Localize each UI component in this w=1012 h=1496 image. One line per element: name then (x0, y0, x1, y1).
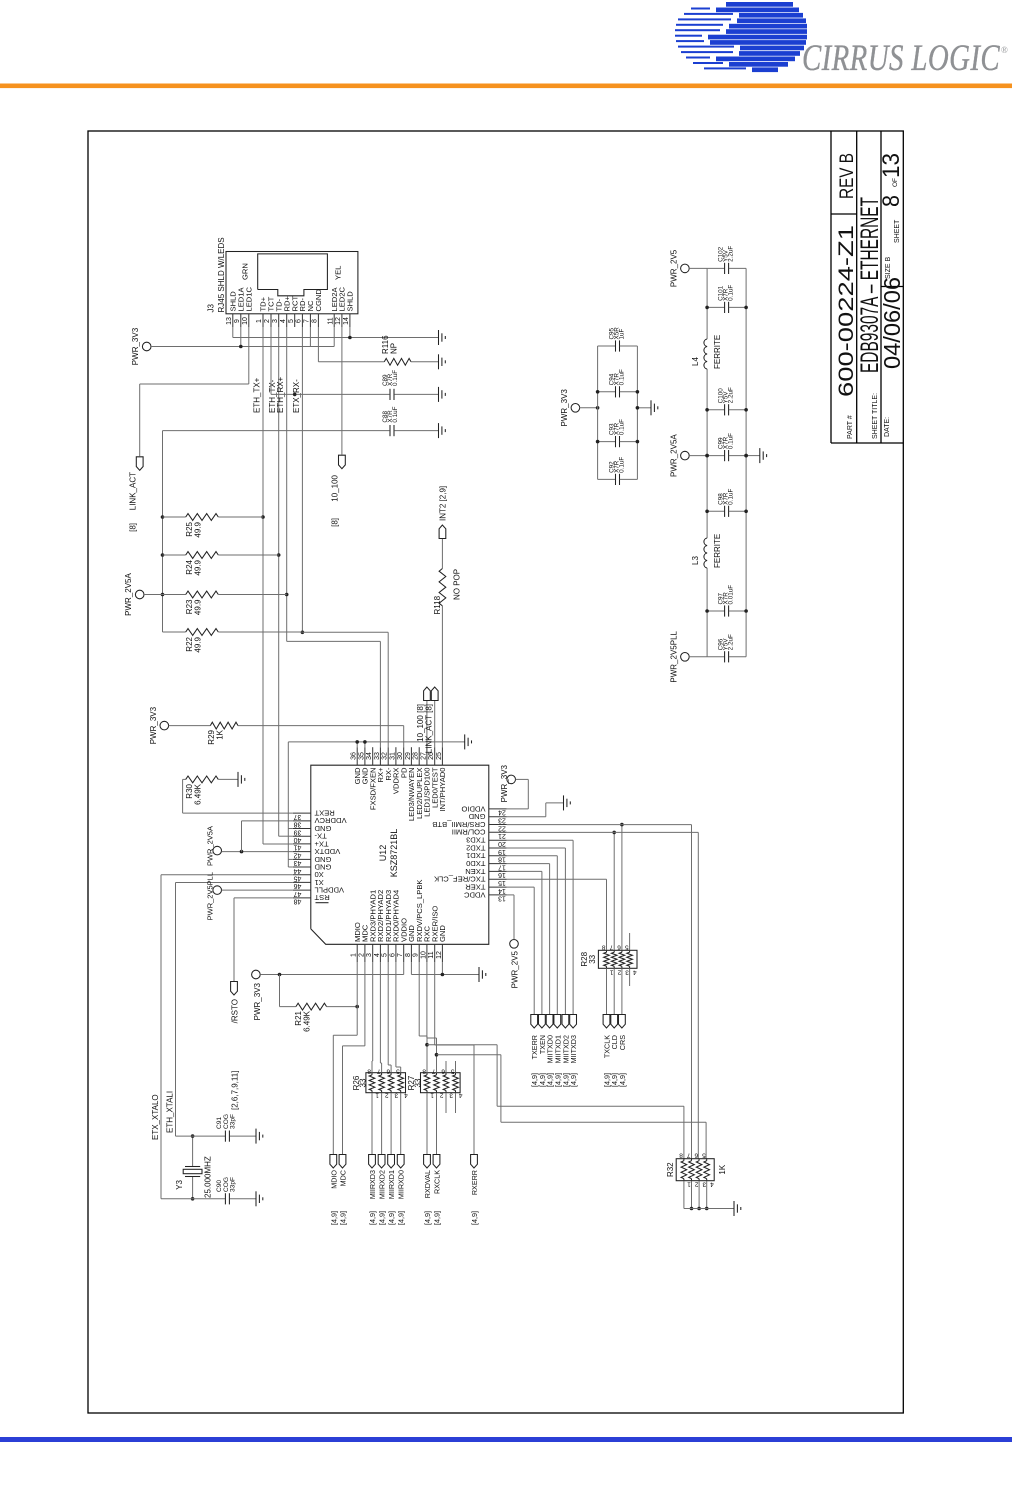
wire PWR_3V3 LED rail (151, 346, 334, 348)
svg-text:PWR_2V5PLL: PWR_2V5PLL (670, 630, 679, 682)
node 10_100 flag at J3 (339, 455, 346, 469)
svg-text:24: 24 (498, 809, 506, 816)
svg-text:46: 46 (294, 882, 302, 889)
J3 pin 9 LED1A (240, 314, 242, 327)
svg-text:X1: X1 (315, 878, 324, 887)
wire RXD3 net (372, 962, 374, 1061)
power symbol PWR_2V5PLL at filter (681, 653, 690, 662)
ground at J3 shield (438, 330, 440, 345)
svg-text:PWR_2V5A: PWR_2V5A (124, 572, 133, 615)
capacitor C96 2.2uF (707, 656, 724, 658)
wire GND rail pins 35 36 (288, 741, 464, 743)
svg-text:36: 36 (351, 752, 358, 760)
net MDIO (356, 962, 358, 1035)
U12 pin 37 REXT (293, 812, 311, 814)
J3 pin 3 TD- (278, 314, 280, 327)
inductor L3 FERRITE (704, 538, 707, 568)
U12 pin 24 VDDIO (489, 808, 507, 810)
R28 element 2 (611, 952, 617, 966)
net TXCLK via R28 (507, 878, 607, 880)
J3 pin 13 SHLD (232, 314, 234, 327)
svg-text:19: 19 (498, 848, 506, 855)
crystal Y3 25.000MHZ (192, 1177, 194, 1199)
svg-text:37: 37 (294, 813, 302, 820)
wire RX+ route to pin33 (287, 640, 381, 642)
svg-text:[4,9]: [4,9] (618, 1073, 627, 1087)
svg-text:6: 6 (389, 953, 396, 957)
svg-text:0.1uF: 0.1uF (618, 457, 625, 473)
U12 pin 35 GND (364, 747, 366, 765)
svg-text:RST: RST (314, 893, 330, 902)
svg-text:TX-: TX- (314, 832, 327, 841)
U12 pin 25 INT/PHYAD0 (441, 747, 443, 765)
svg-text:®: ® (1001, 45, 1008, 55)
svg-text:1: 1 (375, 1092, 379, 1099)
svg-text:5: 5 (702, 1152, 706, 1159)
U12 pin 40 TX- (293, 835, 311, 837)
svg-text:CGND: CGND (314, 289, 323, 312)
svg-text:8: 8 (422, 1068, 426, 1075)
svg-text:GND: GND (438, 925, 447, 942)
U12 pin 41 TX+ (293, 843, 311, 845)
J3 pin 11 LED2A (333, 314, 335, 327)
svg-text:15: 15 (498, 879, 506, 886)
wire RXD2 net (379, 962, 381, 1063)
svg-text:0.01uF: 0.01uF (728, 585, 735, 605)
R28 element 1 (604, 952, 610, 966)
svg-text:2.2uF: 2.2uF (728, 246, 735, 262)
svg-text:6: 6 (441, 1068, 445, 1075)
power symbol PWR_3V3 at VDDIO pin24 (507, 775, 516, 784)
U12 pin 17 TXD0 (489, 863, 507, 865)
power symbol PWR_2V5 at VDDC (510, 940, 519, 949)
orange header rule (0, 84, 1012, 89)
svg-text:SHLD: SHLD (346, 291, 355, 312)
U12 pin 16 TXEN (489, 870, 507, 872)
node flag MIIRXD2 (378, 1155, 385, 1169)
svg-text:LED1/SPD100: LED1/SPD100 (423, 768, 432, 817)
svg-text:33: 33 (413, 1078, 422, 1087)
wire RD- / ETX_RX- (301, 327, 303, 632)
svg-text:ETH_XTALI: ETH_XTALI (165, 1091, 174, 1133)
connector J3 RJ45 body (226, 252, 358, 314)
svg-text:49.9: 49.9 (194, 636, 203, 652)
svg-text:GRN: GRN (241, 263, 250, 280)
svg-text:30: 30 (397, 752, 404, 760)
svg-text:3: 3 (702, 1181, 706, 1188)
power symbol PWR_3V3 at J3 LEDs (142, 342, 151, 351)
svg-text:MIIRXD1: MIIRXD1 (387, 1170, 396, 1199)
svg-text:GND: GND (314, 824, 331, 833)
R32 element 2 (689, 1161, 695, 1179)
wire VDDPLL pin47 (222, 889, 293, 891)
svg-text:29: 29 (405, 752, 412, 760)
svg-text:RJ45 SHLD W/LEDS: RJ45 SHLD W/LEDS (217, 237, 226, 312)
U12 pin 15 TXC/REF_CLK (489, 878, 507, 880)
svg-text:Y3: Y3 (175, 1179, 184, 1189)
wire R32 ground rail (684, 1208, 734, 1210)
net CLD via R28 (613, 832, 615, 950)
ground below R116 (438, 354, 440, 369)
U12 pin 33 RX+ (379, 747, 381, 765)
wire VDDC pin13 (507, 894, 514, 896)
R28 unused stubs (629, 933, 631, 950)
wire TX- riser pin40 (279, 835, 293, 837)
svg-text:2: 2 (358, 953, 365, 957)
svg-text:RX-: RX- (384, 767, 393, 781)
wire RX- route to pin32 (302, 631, 388, 633)
svg-text:PWR_2V5A: PWR_2V5A (206, 826, 215, 866)
svg-text:33: 33 (359, 1078, 368, 1087)
resistor R30 6.49K (183, 812, 293, 814)
svg-text:PWR_3V3: PWR_3V3 (253, 982, 262, 1020)
svg-text:8: 8 (312, 319, 319, 323)
svg-text:ETX_XTALO: ETX_XTALO (151, 1094, 160, 1140)
ground for R32 (733, 1201, 735, 1216)
svg-text:8: 8 (367, 1068, 371, 1075)
ground below C91 (255, 1129, 257, 1144)
R27 element 2 (434, 1075, 440, 1091)
U12 pin 18 TXD1 (489, 855, 507, 857)
svg-text:12: 12 (335, 317, 342, 325)
node LINK_ACT flag at U12 (434, 700, 436, 747)
capacitor C98 0.1uF (707, 510, 724, 512)
IC U12 KSZ8721BL body (311, 765, 489, 944)
svg-text:MIIRXD2: MIIRXD2 (378, 1170, 387, 1199)
svg-text:33pF: 33pF (229, 1114, 236, 1129)
U12 pin 8 GND (410, 944, 412, 962)
svg-text:REV B: REV B (837, 153, 858, 199)
node flag RXDVAL (424, 1155, 431, 1169)
svg-text:42: 42 (294, 851, 302, 858)
svg-text:ETX_RX-: ETX_RX- (292, 379, 301, 413)
net MIITXD0 pin17 (507, 863, 550, 865)
rotated landscape schematic (88, 131, 905, 1413)
J3 pin 4 RD+ (286, 314, 288, 327)
U12 pin 45 X0 (293, 874, 311, 876)
svg-text:13: 13 (226, 317, 233, 325)
svg-text:14: 14 (498, 887, 506, 894)
svg-text:8: 8 (405, 953, 412, 957)
svg-text:VDDTX: VDDTX (315, 847, 341, 856)
svg-text:39: 39 (294, 828, 302, 835)
capacitor C91 33pF (176, 1135, 226, 1137)
svg-text:1K: 1K (718, 1164, 727, 1174)
capacitor C88 (163, 430, 390, 432)
svg-text:35: 35 (358, 752, 365, 760)
svg-text:49.9: 49.9 (194, 559, 203, 575)
svg-text:3: 3 (366, 953, 373, 957)
svg-text:U12: U12 (378, 845, 388, 862)
svg-text:5: 5 (396, 1068, 400, 1075)
J3 pin 5 RCT (294, 314, 296, 327)
svg-text:22: 22 (498, 824, 506, 831)
svg-text:[4,9]: [4,9] (329, 1211, 338, 1225)
U12 pin 9 RXDV/PCS_LPBK (418, 944, 420, 962)
svg-text:11: 11 (327, 317, 334, 324)
wire RXC net pin10 (426, 962, 428, 1038)
wire VDDIO pin24 (516, 778, 529, 780)
svg-text:6.49K: 6.49K (303, 1010, 312, 1032)
svg-text:LED1C: LED1C (244, 287, 253, 312)
svg-text:LED3/NWAYEN: LED3/NWAYEN (407, 768, 416, 822)
net MDC (364, 962, 366, 1046)
svg-text:J3: J3 (207, 304, 216, 313)
resistor R29 1K (160, 721, 169, 730)
U12 pin 21 COL/RMII (489, 831, 507, 833)
power symbol PWR_2V5PLL at VDDPLL (213, 886, 222, 895)
U12 pin 47 VDDPLL (293, 889, 311, 891)
resistor R25 49.9 (163, 516, 186, 518)
svg-text:25: 25 (436, 752, 443, 760)
wire COL pin21 to R32 (507, 831, 699, 833)
power symbol PWR_2V5A at filter (681, 451, 690, 460)
svg-text:VDDRCV: VDDRCV (314, 816, 347, 825)
svg-text:20: 20 (498, 840, 506, 847)
svg-text:[4,9]: [4,9] (569, 1073, 578, 1087)
svg-text:[8]: [8] (331, 518, 340, 527)
wire X1 to crystal (176, 882, 293, 884)
wire GND bar pins 39 43 44 (287, 742, 289, 867)
svg-text:43: 43 (294, 859, 302, 866)
U12 pin 28 LED2/DUPLEX (418, 747, 420, 765)
net TXERR pin14 (507, 886, 534, 888)
svg-text:1: 1 (687, 1181, 691, 1188)
sheet border frame (88, 131, 903, 1413)
svg-text:23: 23 (498, 817, 506, 824)
U12 pin 10 RXC (426, 944, 428, 962)
capacitor C102 2.2uF (707, 267, 724, 269)
power symbol PWR_2V5A at bus (135, 590, 144, 599)
wire GND pin23 (507, 816, 546, 818)
svg-text:PD: PD (399, 767, 408, 778)
svg-text:04/06/06: 04/06/06 (879, 277, 905, 369)
svg-text:[4,9]: [4,9] (387, 1211, 396, 1225)
capacitor C94 0.1uF (598, 391, 616, 393)
R32 element 4 (704, 1161, 710, 1179)
svg-text:PWR_2V5: PWR_2V5 (511, 950, 520, 988)
svg-text:2.2uF: 2.2uF (728, 387, 735, 403)
R27 element 1 (424, 1075, 430, 1091)
U12 pin 13 VDDC (489, 894, 507, 896)
svg-text:4: 4 (280, 319, 287, 323)
capacitor C100 2.2uF (707, 409, 724, 411)
svg-text:FERRITE: FERRITE (713, 335, 722, 369)
U12 pin 30 PD (403, 747, 405, 765)
svg-text:MIITXD3: MIITXD3 (569, 1035, 578, 1063)
node /RSTO flag (231, 982, 238, 996)
svg-text:SIZE B: SIZE B (885, 256, 892, 279)
U12 pin 34 FXSD/FXEN (372, 747, 374, 765)
svg-text:6: 6 (694, 1152, 698, 1159)
node flag MDIO (330, 1155, 337, 1169)
svg-text:2: 2 (264, 319, 271, 323)
svg-text:2: 2 (440, 1092, 444, 1099)
capacitor C99 0.1uF (707, 455, 724, 457)
U12 pin 39 GND (293, 828, 311, 830)
wire TD+ / ETH_TX+ (262, 327, 264, 844)
wire TCT to C89 (270, 327, 272, 394)
power symbol PWR_3V3 at U12 left (252, 970, 261, 979)
U12 pin 48 RST (293, 897, 311, 899)
wire RXD1 net (387, 962, 389, 1065)
svg-text:2: 2 (385, 1092, 389, 1099)
svg-text:4: 4 (374, 953, 381, 957)
svg-text:PWR_3V3: PWR_3V3 (131, 327, 140, 365)
svg-text:7: 7 (397, 953, 404, 957)
svg-text:RXDVAL: RXDVAL (423, 1170, 432, 1198)
U12 pin 36 GND (356, 747, 358, 765)
svg-text:6: 6 (296, 319, 303, 323)
wire TD- / ETH_TX- (278, 327, 280, 836)
wire CGND to R116 (317, 327, 319, 362)
svg-text:5: 5 (382, 953, 389, 957)
svg-text:CRS: CRS (618, 1035, 627, 1050)
svg-text:49.9: 49.9 (194, 521, 203, 537)
J3 pin 10 LED1C (248, 314, 250, 327)
svg-text:PWR_2V5A: PWR_2V5A (670, 434, 679, 477)
U12 pin 1 MDIO (356, 944, 358, 962)
svg-text:1: 1 (610, 968, 614, 975)
wire LED2A pin11 (333, 327, 335, 347)
svg-text:7: 7 (377, 1068, 381, 1075)
wire CRS pin22 to R32 (507, 824, 692, 826)
svg-text:PART #: PART # (847, 415, 854, 439)
R28 element 4 (627, 952, 633, 966)
svg-text:32: 32 (382, 752, 389, 760)
svg-text:LINK_ACT: LINK_ACT (129, 472, 138, 510)
svg-text:0.1uF: 0.1uF (392, 370, 399, 386)
U12 pin 3 RXD3/PHYAD1 (372, 944, 374, 962)
svg-text:[4,9]: [4,9] (378, 1211, 387, 1225)
svg-text:R32: R32 (666, 1162, 675, 1177)
svg-text:11: 11 (428, 951, 435, 958)
node flag RXERR (471, 1155, 478, 1169)
U12 pin 6 RXD0/PHYAD4 (395, 944, 397, 962)
wire RST net (233, 898, 235, 981)
U12 pin 29 LED3/NWAYEN (410, 747, 412, 765)
svg-text:MIIRXD0: MIIRXD0 (397, 1170, 406, 1199)
R32 element 3 (696, 1161, 702, 1179)
R27 unused stubs (445, 1061, 447, 1073)
svg-text:MDC: MDC (339, 1170, 348, 1186)
svg-text:0.1uF: 0.1uF (728, 489, 735, 505)
resistor R24 49.9 (163, 554, 186, 556)
wire termination bus 2V5A (162, 431, 164, 632)
wire TX+ riser pin41 (263, 843, 293, 845)
svg-text:SHEET TITLE:: SHEET TITLE: (872, 393, 879, 439)
net MIITXD1 pin18 (507, 855, 558, 857)
wire RD+ / ETH_RX+ (286, 327, 288, 641)
U12 pin 23 GND (489, 816, 507, 818)
node flag MDC (339, 1155, 346, 1169)
svg-text:CIRRUS LOGIC: CIRRUS LOGIC (802, 38, 1001, 79)
svg-text:7: 7 (432, 1068, 436, 1075)
U12 pin 11 RXER/ISO (434, 944, 436, 962)
capacitor C93 0.1uF (598, 441, 616, 443)
svg-text:REXT: REXT (314, 809, 335, 818)
svg-text:7: 7 (304, 319, 311, 323)
svg-text:ETH_TX+: ETH_TX+ (253, 377, 262, 413)
net MIITXD3 pin20 (507, 839, 573, 841)
J3 pin 8 CGND (317, 314, 319, 327)
power symbol PWR_2V5A at VDDTX (213, 846, 222, 855)
U12 pin 43 GND (293, 858, 311, 860)
svg-text:[4,9]: [4,9] (423, 1211, 432, 1225)
J3 pin 1 TD+ (262, 314, 264, 327)
svg-text:40: 40 (294, 836, 302, 843)
svg-text:4: 4 (633, 968, 637, 975)
svg-text:4: 4 (404, 1092, 408, 1099)
svg-text:KSZ8721BL: KSZ8721BL (389, 829, 399, 878)
svg-text:6: 6 (386, 1068, 390, 1075)
wire NC stub (309, 327, 311, 347)
U12 pin 14 TXER (489, 886, 507, 888)
resistor pack R26 33 (366, 1073, 406, 1093)
svg-text:2.2uF: 2.2uF (728, 634, 735, 650)
svg-text:1uF: 1uF (618, 328, 625, 339)
svg-text:33: 33 (588, 954, 597, 963)
svg-text:13: 13 (878, 153, 905, 178)
svg-text:R118: R118 (433, 595, 442, 614)
resistor pack R28 33 (598, 950, 637, 968)
svg-text:6.49K: 6.49K (194, 783, 203, 805)
node flag MIIRXD0 (397, 1155, 404, 1169)
svg-text:0.1uF: 0.1uF (618, 369, 625, 385)
svg-text:RXCLK: RXCLK (433, 1170, 442, 1194)
U12 pin 2 MDC (364, 944, 366, 962)
svg-text:12: 12 (436, 951, 443, 959)
wire PWR_3V3 to VDDIO pin7 (260, 974, 404, 976)
U12 pin 32 RX- (387, 747, 389, 765)
net RXERR pin11 (434, 962, 436, 1045)
ground below R30 (237, 772, 239, 787)
svg-text:3: 3 (449, 1092, 453, 1099)
U12 pin 5 RXD1/PHYAD3 (387, 944, 389, 962)
resistor R118 NO POP (441, 606, 443, 747)
svg-text:3: 3 (272, 319, 279, 323)
svg-text:VDDIO: VDDIO (461, 804, 485, 813)
ground below C89 (438, 387, 440, 402)
wire 2V5 filter ground rail (745, 268, 747, 656)
wire R29 to PD pin30 (403, 726, 405, 748)
wire VDDTX pin42 (222, 851, 293, 853)
node 10_100 flag at U12 (426, 700, 428, 747)
svg-text:PWR_3V3: PWR_3V3 (500, 764, 509, 802)
resistor R23 49.9 (163, 594, 186, 596)
svg-text:17: 17 (498, 863, 506, 870)
svg-text:7: 7 (687, 1152, 691, 1159)
svg-text:OF: OF (892, 178, 899, 187)
U12 pin 20 TXD3 (489, 839, 507, 841)
U12 pin 42 VDDTX (293, 851, 311, 853)
svg-text:NO POP: NO POP (453, 569, 462, 600)
svg-text:7: 7 (609, 943, 613, 950)
svg-text:[4,9]: [4,9] (433, 1211, 442, 1225)
svg-text:14: 14 (343, 317, 350, 325)
resistor R116 NP (318, 361, 384, 363)
svg-text:LED2/DUPLEX: LED2/DUPLEX (415, 768, 424, 820)
blue footer rule (0, 1437, 1012, 1442)
net TXEN pin16 (507, 870, 542, 872)
ground below C90 (255, 1191, 257, 1206)
svg-text:28: 28 (413, 752, 420, 760)
svg-text:8: 8 (679, 1152, 683, 1159)
node flag RXCLK (433, 1155, 440, 1169)
svg-text:16: 16 (498, 871, 506, 878)
capacitor C95 1uF (598, 345, 616, 347)
svg-text:4: 4 (459, 1092, 463, 1099)
